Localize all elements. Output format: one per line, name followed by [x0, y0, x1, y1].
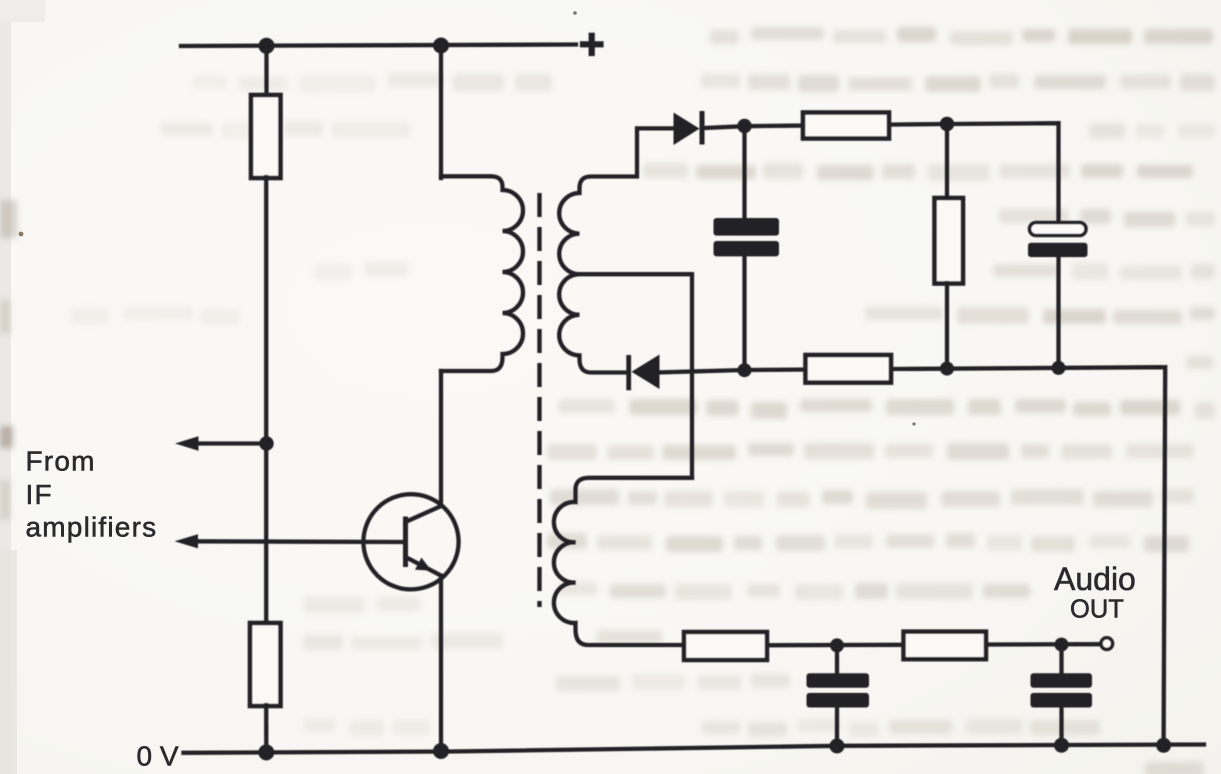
- wire: 0V bottom rail: [184, 745, 1205, 753]
- diode D2 (lower detector diode): [626, 355, 659, 391]
- wire: R1 bottom down to bottom rail: [264, 177, 268, 624]
- resistor R7 (de-emphasis resistor 2): [904, 632, 987, 660]
- transformer core dashed line: [537, 193, 541, 607]
- wire: audio output row: [684, 644, 1101, 645]
- wire: C3 to 0V rail: [835, 707, 839, 747]
- capacitor C3 (de-emphasis capacitor 1): [807, 673, 870, 707]
- resistor R2 (lower bias resistor): [250, 623, 281, 706]
- transistor Q1 circle: [363, 494, 458, 589]
- node: audio row / C4: [1055, 638, 1069, 652]
- arrowhead: upper IF lead: [175, 436, 199, 451]
- svg-text:0 V: 0 V: [137, 741, 179, 772]
- transistor Q1 base bar: [403, 517, 408, 568]
- resistor R3 (top load resistor): [803, 113, 889, 139]
- capacitor C2 (electrolytic, hollow + filled plate): [1030, 223, 1087, 236]
- wire: collector vertical into transistor: [439, 371, 443, 506]
- diode D1 (top detector diode): [674, 111, 705, 145]
- node: top rail / R1: [259, 38, 275, 54]
- wire: IF input arrow (upper, from divider): [196, 441, 267, 445]
- small specks: [19, 232, 24, 237]
- transistor Q1 collector stroke: [407, 506, 442, 522]
- node: 0V / C3: [830, 739, 845, 754]
- svg-text:Audio: Audio: [1054, 561, 1136, 597]
- transformer primary winding T1a: [441, 176, 523, 371]
- terminal: audio output circle: [1101, 638, 1113, 650]
- wire: D1 cathode to C2 corner (top right rail): [705, 123, 1059, 222]
- node: D1 cathode junction: [737, 119, 751, 133]
- node: 0V / divider: [258, 744, 274, 760]
- node: R3 / R4 junction: [940, 117, 954, 131]
- capacitor C4 (de-emphasis capacitor 2): [1031, 673, 1093, 707]
- wire: junction to capacitor C3: [835, 646, 839, 675]
- node: middle rail / R4: [940, 362, 954, 376]
- node: middle rail / C2: [1052, 361, 1066, 375]
- node: top rail / collector feed: [433, 38, 449, 54]
- wire: junction down to capacitor C1: [742, 126, 746, 219]
- wire: middle rail from D2 to right corner, down right side: [660, 367, 1166, 745]
- node: audio row / C3: [830, 638, 844, 652]
- arrowhead: base lead: [175, 534, 199, 548]
- wire: R4 bottom to middle rail: [945, 283, 949, 369]
- transformer secondary winding T1b with top lead to diode D1: [559, 128, 674, 372]
- resistor R5 (middle rail resistor): [806, 355, 892, 383]
- wire: IF input arrow (base lead): [186, 539, 403, 544]
- transistor Q1 emitter stroke with arrow: [407, 558, 442, 576]
- node: divider / upper IF arrow: [259, 436, 273, 450]
- resistor R6 (de-emphasis resistor 1): [684, 632, 767, 660]
- node: + supply label: [583, 36, 601, 53]
- svg-text:OUT: OUT: [1070, 596, 1124, 624]
- node: 0V / right rail: [1156, 738, 1171, 753]
- resistor R1 (upper bias resistor): [251, 95, 281, 178]
- capacitor C1 (stabilising capacitor, filled plates): [714, 218, 780, 256]
- wire: left bias divider vertical (top rail to R1): [264, 46, 268, 96]
- node: 0V / C4: [1054, 738, 1069, 753]
- wire: C4 to 0V rail: [1059, 707, 1063, 746]
- wire: top supply rail: [181, 45, 576, 47]
- svg-text:From: From: [26, 446, 96, 477]
- wire: R3 junction down to resistor R4: [945, 124, 949, 199]
- wire: junction to capacitor C4: [1059, 645, 1063, 674]
- node: 0V / emitter: [433, 743, 449, 759]
- svg-text:amplifiers: amplifiers: [26, 512, 158, 543]
- wire: collector feed drop from top rail: [439, 46, 443, 179]
- wire: C1 bottom to middle rail: [742, 256, 746, 370]
- wire: C2 bottom to middle rail: [1056, 257, 1060, 368]
- left page-edge shading: [0, 0, 11, 774]
- transformer tertiary winding T1c: [554, 478, 692, 645]
- wire: secondary centre tap to tertiary winding: [580, 274, 693, 478]
- svg-text:IF: IF: [26, 479, 53, 510]
- wire: R2 bottom to 0V rail: [264, 705, 268, 752]
- node: middle rail / C1: [738, 363, 752, 377]
- resistor R4 (centre load resistor): [935, 198, 964, 284]
- wire: emitter down to 0V rail: [439, 576, 443, 751]
